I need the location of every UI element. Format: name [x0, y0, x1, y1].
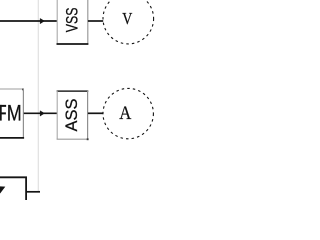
- meter A circle: [103, 88, 153, 138]
- label 7 partial glyph: [0, 186, 5, 193]
- box bottom-left right edge: [25, 177, 27, 201]
- meter V circle: [103, 0, 154, 44]
- box VSS bottom edge: [57, 43, 89, 45]
- arrowhead row2: [40, 111, 44, 116]
- svg-text:FM: FM: [0, 102, 22, 126]
- box FM right edge: [22, 89, 24, 138]
- svg-text:ASS: ASS: [62, 99, 81, 132]
- box FM top-right corner nub: [22, 89, 24, 91]
- box ASS bottom edge: [57, 138, 89, 140]
- box VSS right edge: [87, 0, 89, 44]
- wire row1 left: [0, 20, 58, 22]
- label FM cut stem of F: [0, 105, 2, 121]
- box ASS left edge: [56, 91, 58, 139]
- wire row2 mid: [88, 112, 103, 114]
- box bottom-left top edge: [0, 176, 27, 178]
- box ASS top edge: [57, 90, 89, 92]
- svg-text:V: V: [122, 10, 133, 29]
- arrowhead row1: [40, 18, 44, 23]
- wire row1 mid: [88, 20, 103, 22]
- box VSS left edge: [56, 0, 58, 44]
- wire vertical gray net: [37, 0, 39, 192]
- box FM top edge: [0, 88, 24, 90]
- box ASS right edge: [87, 91, 89, 139]
- svg-text:A: A: [119, 102, 131, 123]
- wire row2 left: [24, 112, 58, 114]
- box ASS bottom-right corner nub: [87, 138, 89, 140]
- wire row3: [26, 191, 40, 193]
- box FM bottom edge: [0, 137, 24, 139]
- svg-text:VSS: VSS: [64, 7, 82, 32]
